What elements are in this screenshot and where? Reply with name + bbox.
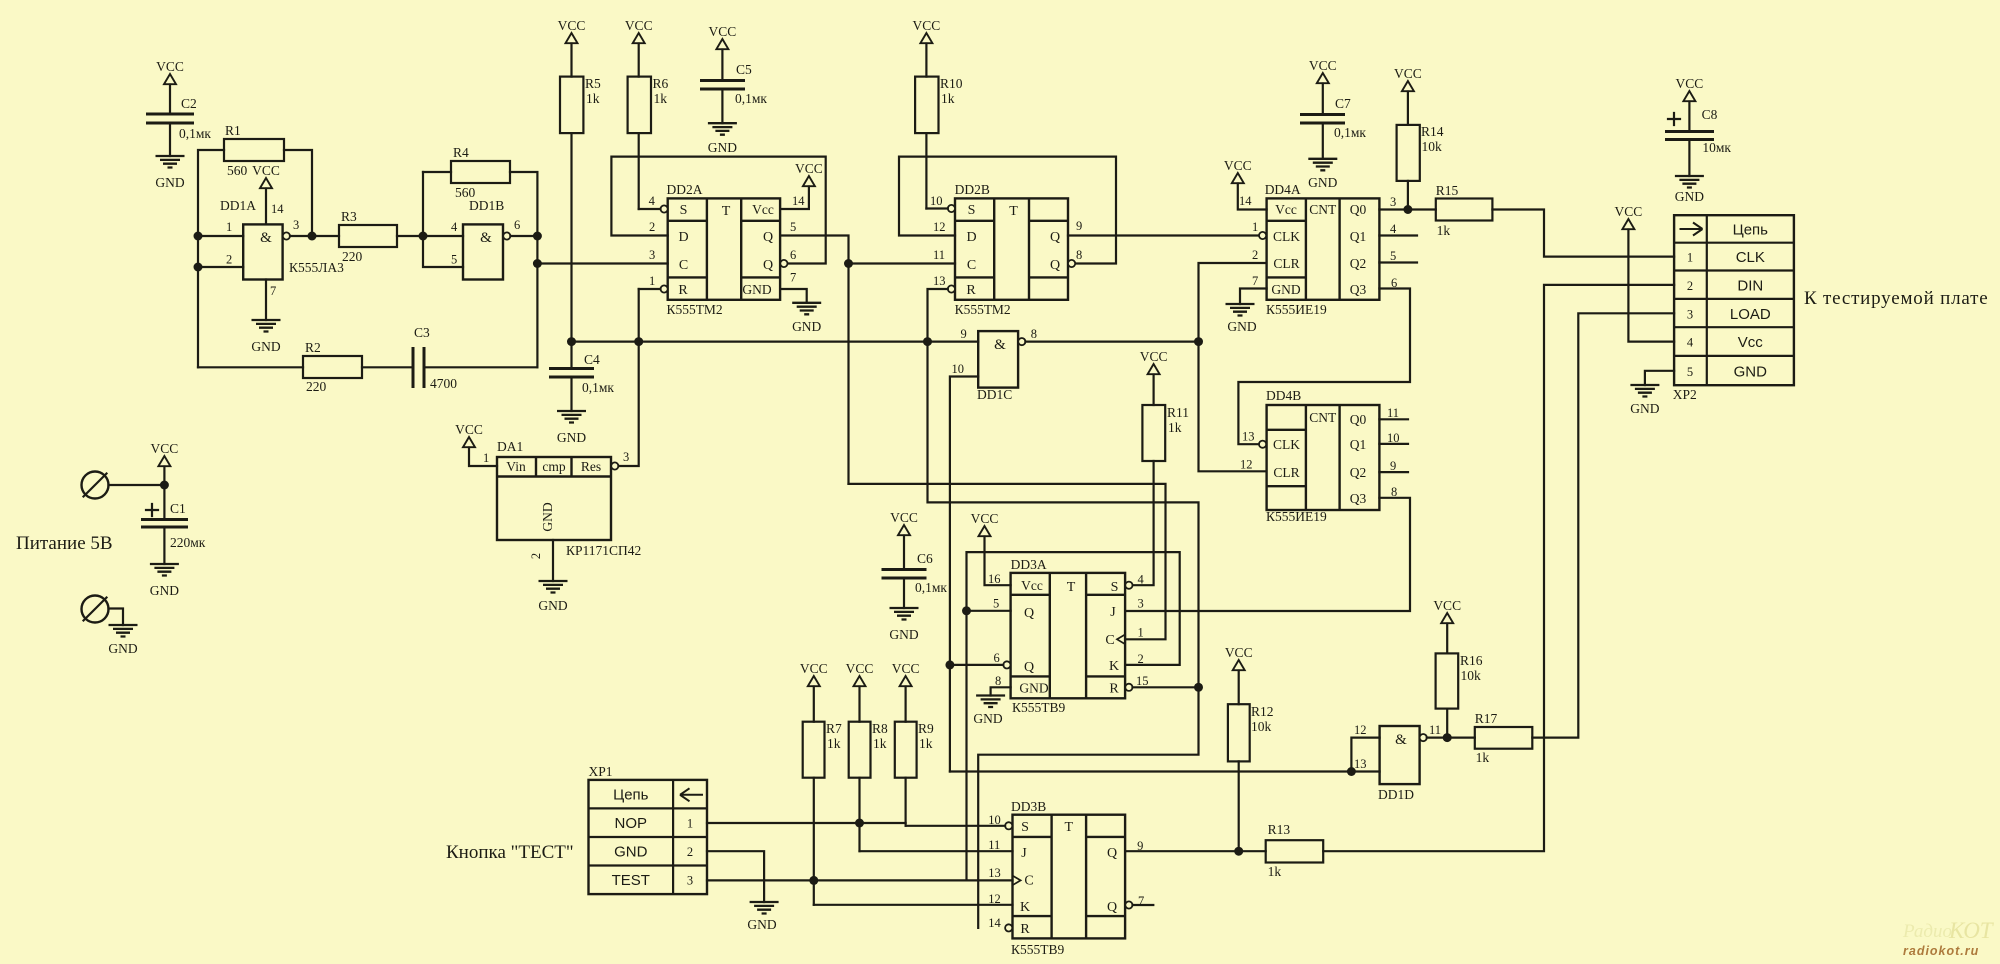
- svg-text:C3: C3: [414, 325, 430, 340]
- ground (XP2 GND): [1630, 371, 1674, 416]
- svg-text:4: 4: [1138, 573, 1145, 587]
- wire R1 right to output node: [284, 150, 312, 236]
- wire DD3B Q / R13 line: [1125, 847, 1266, 856]
- svg-text:R4: R4: [453, 145, 469, 160]
- ground (input terminal): [108, 625, 137, 656]
- svg-text:12: 12: [933, 220, 946, 234]
- svg-text:7: 7: [1252, 274, 1258, 288]
- wire R17 to XP2 LOAD: [1532, 313, 1674, 737]
- svg-text:Q: Q: [1024, 606, 1034, 621]
- svg-text:D: D: [966, 230, 976, 245]
- power symbol VCC (C1): [151, 441, 179, 485]
- svg-text:4: 4: [1390, 222, 1397, 236]
- svg-text:C6: C6: [917, 551, 933, 566]
- svg-text:11: 11: [1429, 723, 1441, 737]
- resistor R10: [915, 76, 963, 209]
- svg-text:5: 5: [993, 597, 999, 611]
- svg-text:Питание 5В: Питание 5В: [16, 533, 113, 554]
- arrow XP2 header: [1680, 223, 1703, 236]
- svg-text:R13: R13: [1268, 822, 1291, 837]
- chip DA1: [497, 439, 641, 559]
- resistor R14: [1397, 124, 1444, 210]
- svg-text:2: 2: [1687, 279, 1693, 293]
- svg-text:DD2B: DD2B: [955, 182, 990, 197]
- power symbol VCC (XP2 Vcc): [1615, 204, 1675, 342]
- power symbol VCC (R12): [1225, 645, 1253, 704]
- label К тестируемой плате: [1804, 288, 1988, 309]
- pin labels DD3A: [988, 572, 1149, 688]
- svg-text:C4: C4: [584, 352, 600, 367]
- svg-text:T: T: [1065, 820, 1074, 835]
- svg-text:R2: R2: [305, 340, 321, 355]
- svg-text:11: 11: [988, 838, 1000, 852]
- svg-text:1k: 1k: [827, 736, 841, 751]
- wire DD1D out node: [1427, 733, 1475, 742]
- resistor R7: [803, 721, 842, 905]
- svg-text:Q2: Q2: [1350, 256, 1367, 271]
- svg-text:5: 5: [790, 220, 796, 234]
- resistor R17: [1475, 711, 1533, 765]
- pin DD4B CLK bubble: [1259, 441, 1266, 448]
- svg-text:XP2: XP2: [1673, 387, 1697, 402]
- svg-text:Vcc: Vcc: [752, 202, 774, 217]
- capacitor C8: [1665, 107, 1731, 176]
- svg-text:3: 3: [1687, 307, 1693, 321]
- svg-text:1: 1: [687, 817, 693, 831]
- svg-text:3: 3: [293, 218, 299, 232]
- svg-text:1k: 1k: [1268, 864, 1282, 879]
- wire XP1 GND pin: [707, 851, 779, 932]
- svg-text:S: S: [1021, 820, 1029, 835]
- svg-text:560: 560: [227, 163, 248, 178]
- gate DD1C: [952, 327, 1037, 402]
- svg-text:1k: 1k: [1437, 223, 1451, 238]
- svg-text:C: C: [1105, 633, 1114, 648]
- power symbol VCC (R5): [558, 18, 586, 77]
- wire DD1D input tie: [1347, 738, 1380, 776]
- svg-text:R3: R3: [341, 209, 357, 224]
- resistor R13: [1266, 822, 1324, 879]
- svg-text:R5: R5: [585, 76, 601, 91]
- ground (C8): [1675, 176, 1704, 204]
- gate DD1D: [1354, 723, 1441, 802]
- svg-text:GND: GND: [614, 844, 648, 861]
- svg-text:10: 10: [952, 362, 965, 376]
- pin labels DD4B: [1240, 406, 1400, 499]
- svg-text:Q: Q: [1050, 258, 1060, 273]
- svg-text:Q: Q: [763, 258, 773, 273]
- svg-text:C: C: [1024, 874, 1033, 889]
- svg-text:R: R: [678, 283, 688, 298]
- wire DD4A Q1 stub: [1379, 234, 1417, 236]
- ground (DD4A pin7): [1226, 289, 1267, 335]
- terminal ground input: [82, 596, 124, 626]
- gate DD1B: [451, 198, 520, 280]
- svg-text:VCC: VCC: [1309, 58, 1337, 73]
- wire DD1C pin10 from DD3A Qbar: [950, 377, 978, 772]
- svg-text:CLR: CLR: [1273, 465, 1299, 480]
- svg-text:R11: R11: [1167, 405, 1189, 420]
- chip DD2A: [667, 182, 781, 317]
- svg-text:VCC: VCC: [1140, 349, 1168, 364]
- wire DD1C out to counters CLR: [1025, 263, 1266, 471]
- svg-text:LOAD: LOAD: [1730, 306, 1771, 323]
- capacitor C7: [1300, 96, 1366, 159]
- wire DD4B Q0 stub: [1379, 418, 1408, 420]
- svg-text:GND: GND: [1308, 175, 1337, 190]
- watermark RadioKOT: [1902, 918, 1995, 958]
- wire NOP to DD3B S: [707, 819, 1005, 828]
- svg-text:13: 13: [933, 274, 946, 288]
- chip DD4B: [1266, 388, 1379, 524]
- svg-text:DD1D: DD1D: [1378, 787, 1414, 802]
- chip DD3B: [1011, 799, 1125, 957]
- svg-text:К555ТВ9: К555ТВ9: [1012, 700, 1066, 715]
- svg-text:DA1: DA1: [497, 439, 523, 454]
- svg-text:&: &: [1395, 732, 1407, 748]
- svg-text:12: 12: [1240, 458, 1253, 472]
- svg-text:GND: GND: [747, 917, 776, 932]
- svg-text:Кнопка "ТЕСТ": Кнопка "ТЕСТ": [446, 842, 574, 863]
- pin DD2B R bubble: [928, 285, 1199, 928]
- pin DD3B R bubble: [1005, 924, 1012, 931]
- pin DD2A S bubble: [639, 205, 668, 212]
- svg-text:Q0: Q0: [1350, 412, 1367, 427]
- svg-text:15: 15: [1136, 674, 1149, 688]
- power symbol VCC (R6): [625, 18, 653, 77]
- svg-text:DD1A: DD1A: [220, 198, 256, 213]
- chip DD2B: [955, 182, 1068, 317]
- svg-text:R: R: [1020, 922, 1030, 937]
- svg-text:C: C: [967, 258, 976, 273]
- svg-text:GND: GND: [540, 502, 555, 531]
- svg-text:R9: R9: [918, 721, 934, 736]
- wire DD2A D feedback loop: [611, 157, 825, 264]
- svg-text:Q1: Q1: [1350, 229, 1367, 244]
- svg-text:CNT: CNT: [1309, 410, 1337, 425]
- svg-text:&: &: [480, 230, 492, 246]
- svg-text:Q: Q: [1024, 660, 1034, 675]
- svg-text:C7: C7: [1335, 96, 1351, 111]
- svg-text:VCC: VCC: [1676, 76, 1704, 91]
- svg-text:VCC: VCC: [252, 163, 280, 178]
- svg-text:0,1мк: 0,1мк: [582, 380, 614, 395]
- svg-text:1k: 1k: [873, 736, 887, 751]
- svg-text:R17: R17: [1475, 711, 1498, 726]
- svg-text:GND: GND: [1271, 282, 1300, 297]
- svg-text:К555ЛА3: К555ЛА3: [289, 260, 344, 275]
- svg-text:К555ТМ2: К555ТМ2: [955, 302, 1011, 317]
- svg-text:VCC: VCC: [1225, 645, 1253, 660]
- svg-text:VCC: VCC: [709, 24, 737, 39]
- svg-text:3: 3: [623, 450, 629, 464]
- svg-text:Q3: Q3: [1350, 282, 1367, 297]
- svg-text:GND: GND: [251, 339, 280, 354]
- svg-text:Q: Q: [1050, 230, 1060, 245]
- resistor R15: [1436, 183, 1493, 238]
- svg-text:VCC: VCC: [892, 661, 920, 676]
- svg-text:7: 7: [790, 271, 796, 285]
- svg-text:R15: R15: [1436, 183, 1459, 198]
- ground (C2): [155, 156, 184, 190]
- resistor R16: [1436, 653, 1483, 738]
- svg-text:3: 3: [687, 874, 693, 888]
- svg-text:9: 9: [1137, 839, 1143, 853]
- svg-text:Q: Q: [1107, 900, 1117, 915]
- resistor R5: [560, 76, 601, 368]
- svg-text:11: 11: [933, 248, 945, 262]
- svg-text:Q2: Q2: [1350, 465, 1367, 480]
- svg-text:КР1171СП42: КР1171СП42: [566, 543, 641, 558]
- svg-text:GND: GND: [742, 282, 771, 297]
- svg-text:1: 1: [483, 451, 489, 465]
- svg-text:VCC: VCC: [913, 18, 941, 33]
- svg-text:3: 3: [1390, 195, 1396, 209]
- svg-text:Vcc: Vcc: [1275, 202, 1297, 217]
- svg-text:14: 14: [988, 916, 1001, 930]
- svg-text:R1: R1: [225, 123, 241, 138]
- pin DD3B Qbar bubble: [1125, 901, 1153, 908]
- wire DD2B D feedback loop: [899, 157, 1116, 264]
- svg-text:Q: Q: [763, 230, 773, 245]
- svg-text:8: 8: [1076, 248, 1082, 262]
- svg-text:6: 6: [790, 248, 796, 262]
- pin labels DD2B: [930, 194, 1082, 288]
- svg-text:J: J: [1110, 605, 1116, 620]
- ground (DD3A pin8): [973, 687, 1010, 726]
- ground (C6): [889, 608, 918, 642]
- svg-text:J: J: [1021, 846, 1027, 861]
- wire DD4B Q2 stub: [1379, 471, 1408, 473]
- svg-text:6: 6: [514, 218, 520, 232]
- svg-text:Цепь: Цепь: [613, 787, 649, 804]
- svg-text:GND: GND: [108, 641, 137, 656]
- svg-text:3: 3: [1138, 597, 1144, 611]
- svg-text:10: 10: [930, 194, 943, 208]
- svg-text:Vcc: Vcc: [1021, 578, 1043, 593]
- svg-text:&: &: [260, 230, 272, 246]
- wire DD4A Q0 to R15: [1379, 205, 1435, 214]
- pin DD3A R bubble: [1125, 683, 1203, 692]
- resistor R1: [224, 123, 284, 178]
- svg-text:R7: R7: [826, 721, 842, 736]
- wire DD3A Qbar to DD1D: [945, 660, 1351, 771]
- pin labels DD2A: [649, 194, 806, 288]
- wire R7 to DD3B K: [814, 904, 1013, 906]
- svg-text:VCC: VCC: [1615, 204, 1643, 219]
- svg-text:КОТ: КОТ: [1948, 918, 1995, 943]
- capacitor C6: [882, 551, 948, 608]
- ground (C5): [708, 123, 737, 155]
- svg-text:2: 2: [1252, 248, 1258, 262]
- wire R15 to XP2 CLK: [1492, 210, 1674, 257]
- wire R8 to DD3B J: [860, 850, 1013, 852]
- svg-text:К555ТВ9: К555ТВ9: [1011, 942, 1065, 957]
- gate DD1A: [220, 198, 344, 298]
- svg-text:C5: C5: [736, 62, 752, 77]
- svg-text:GND: GND: [1227, 319, 1256, 334]
- power symbol VCC (C5): [709, 24, 737, 80]
- svg-text:1: 1: [649, 274, 655, 288]
- svg-text:TEST: TEST: [612, 872, 650, 889]
- label Питание 5В: [16, 533, 113, 554]
- pin DD2B Qbar bubble: [1068, 260, 1075, 267]
- svg-text:R10: R10: [940, 76, 963, 91]
- svg-text:K: K: [1109, 659, 1119, 674]
- power symbol VCC (R7): [800, 661, 828, 722]
- resistor R2: [198, 340, 413, 394]
- power symbol VCC (R9): [892, 661, 920, 722]
- svg-text:Цепь: Цепь: [1733, 222, 1769, 239]
- power symbol VCC (R11): [1140, 349, 1168, 405]
- power symbol VCC (DD1A pin14): [252, 163, 280, 224]
- capacitor C4: [549, 352, 614, 411]
- wire DD2A Q out: [780, 236, 955, 484]
- svg-text:R12: R12: [1251, 704, 1274, 719]
- svg-text:R16: R16: [1460, 653, 1483, 668]
- svg-text:GND: GND: [1675, 189, 1704, 204]
- svg-text:9: 9: [961, 327, 967, 341]
- svg-text:T: T: [1009, 204, 1018, 219]
- pin DD3A S bubble: [1125, 582, 1132, 589]
- svg-text:R: R: [1109, 682, 1119, 697]
- ground (DD1A pin7): [251, 280, 280, 355]
- chip DD3A: [1011, 557, 1126, 715]
- resistor R9: [895, 721, 934, 826]
- svg-text:1k: 1k: [654, 91, 668, 106]
- svg-text:C1: C1: [170, 501, 186, 516]
- svg-text:9: 9: [1076, 219, 1082, 233]
- svg-text:DD3A: DD3A: [1011, 557, 1047, 572]
- svg-text:Vcc: Vcc: [1738, 334, 1764, 351]
- svg-text:7: 7: [270, 284, 276, 298]
- svg-text:DD4A: DD4A: [1265, 182, 1301, 197]
- svg-text:8: 8: [1031, 327, 1037, 341]
- svg-text:3: 3: [649, 248, 655, 262]
- svg-text:1: 1: [1687, 251, 1693, 265]
- svg-text:4700: 4700: [430, 376, 457, 391]
- svg-text:VCC: VCC: [558, 18, 586, 33]
- svg-text:220: 220: [342, 249, 363, 264]
- capacitor C3: [413, 325, 537, 391]
- wire DD1A out to R3: [290, 232, 339, 241]
- svg-text:radiokot.ru: radiokot.ru: [1903, 944, 1979, 958]
- svg-text:5: 5: [1687, 365, 1693, 379]
- svg-text:2: 2: [529, 553, 543, 559]
- svg-text:DD3B: DD3B: [1011, 799, 1046, 814]
- terminal power input: [82, 472, 109, 499]
- svg-text:VCC: VCC: [625, 18, 653, 33]
- svg-text:VCC: VCC: [971, 511, 999, 526]
- svg-text:R: R: [966, 283, 976, 298]
- svg-text:1k: 1k: [919, 736, 933, 751]
- wire DD3B Q out: [1124, 850, 1126, 852]
- svg-text:14: 14: [271, 202, 284, 216]
- svg-text:8: 8: [995, 674, 1001, 688]
- power symbol VCC (R8): [846, 661, 874, 722]
- svg-text:0,1мк: 0,1мк: [179, 126, 211, 141]
- resistor R6: [628, 76, 669, 209]
- svg-text:VCC: VCC: [795, 161, 823, 176]
- svg-text:GND: GND: [1734, 363, 1768, 380]
- svg-text:К555ТМ2: К555ТМ2: [667, 302, 723, 317]
- svg-text:GND: GND: [155, 175, 184, 190]
- svg-text:VCC: VCC: [1224, 158, 1252, 173]
- power symbol VCC (C7): [1309, 58, 1337, 114]
- svg-text:К тестируемой плате: К тестируемой плате: [1804, 288, 1988, 309]
- power symbol VCC (R16): [1433, 598, 1461, 653]
- wire DA1 res out: [619, 289, 639, 466]
- svg-text:Q1: Q1: [1350, 437, 1367, 452]
- svg-text:DD4B: DD4B: [1266, 388, 1301, 403]
- svg-text:GND: GND: [1630, 401, 1659, 416]
- pin DD2A R bubble: [639, 285, 668, 292]
- wire DA1 pin2 to ground: [538, 540, 567, 613]
- ground (DD2A pin7): [780, 289, 821, 334]
- chip DD4A: [1265, 182, 1380, 317]
- svg-text:1k: 1k: [586, 91, 600, 106]
- svg-text:10k: 10k: [1422, 139, 1443, 154]
- svg-text:Vin: Vin: [506, 459, 526, 474]
- pin labels DD4A: [1239, 194, 1397, 290]
- svg-text:2: 2: [687, 845, 693, 859]
- wire DD4A Q3 to DD4B CLK: [1238, 289, 1410, 445]
- wire terminal to C1 node: [109, 481, 169, 520]
- svg-text:1k: 1k: [1168, 420, 1182, 435]
- svg-text:1k: 1k: [941, 91, 955, 106]
- node pin2 junction: [194, 263, 244, 272]
- svg-text:VCC: VCC: [156, 59, 184, 74]
- svg-text:NOP: NOP: [615, 815, 648, 832]
- power symbol VCC (DD3A pin16): [971, 511, 1011, 585]
- svg-text:C8: C8: [1702, 107, 1718, 122]
- svg-text:1k: 1k: [1476, 750, 1490, 765]
- svg-text:4: 4: [649, 194, 656, 208]
- svg-text:10мк: 10мк: [1702, 140, 1731, 155]
- svg-text:VCC: VCC: [455, 422, 483, 437]
- svg-text:14: 14: [792, 194, 805, 208]
- svg-text:&: &: [994, 337, 1006, 353]
- wire R13 to XP2 DIN: [1323, 285, 1674, 851]
- svg-text:6: 6: [994, 651, 1000, 665]
- ground (C4): [557, 411, 586, 445]
- dynamic mark DD3B C: [1013, 876, 1021, 886]
- svg-text:1: 1: [1138, 626, 1144, 640]
- svg-text:Q: Q: [1107, 846, 1117, 861]
- svg-text:VCC: VCC: [890, 510, 918, 525]
- svg-text:VCC: VCC: [151, 441, 179, 456]
- wire clock to DD2A C: [537, 262, 667, 264]
- wire DD2A Q delayed to DD3A C: [849, 484, 1166, 639]
- svg-text:9: 9: [1390, 459, 1396, 473]
- svg-text:4: 4: [1687, 336, 1694, 350]
- capacitor C1: [141, 501, 206, 564]
- svg-text:XP1: XP1: [589, 764, 613, 779]
- wire DD4B Q1 stub: [1379, 443, 1408, 445]
- svg-text:cmp: cmp: [542, 459, 565, 474]
- ground (C7): [1308, 159, 1337, 190]
- svg-text:GND: GND: [792, 319, 821, 334]
- pin DD3B S bubble: [1005, 822, 1012, 829]
- svg-text:5: 5: [451, 253, 457, 267]
- svg-text:Q0: Q0: [1350, 202, 1367, 217]
- power symbol VCC (DA1): [455, 422, 497, 466]
- svg-text:0,1мк: 0,1мк: [735, 91, 767, 106]
- svg-text:CLK: CLK: [1273, 437, 1300, 452]
- svg-text:13: 13: [1354, 757, 1367, 771]
- pin DD4A CLK bubble: [1259, 232, 1266, 239]
- dynamic mark DD3A C: [1117, 635, 1125, 645]
